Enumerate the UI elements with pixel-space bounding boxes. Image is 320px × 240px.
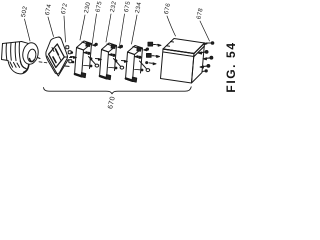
leader line 672 [64,16,66,42]
leader line 678 [200,21,210,41]
leader line 234 [132,15,138,44]
screws left of box 676 [146,42,161,64]
standoffs 672 [65,46,74,67]
leader line 676 [167,16,176,36]
leader line 232 [106,14,111,42]
svg-text:FIG. 54: FIG. 54 [224,41,238,92]
arrow marks at slab 234 [122,56,141,63]
lens housing 502 [2,42,41,74]
arrow marks at slab 232 [96,54,115,61]
screws right of box 676 [198,51,213,73]
screw 678 [204,42,214,45]
frame plate 674 [46,37,68,76]
spacer after slab 234 [135,48,150,72]
leader line 675 [92,14,97,45]
slab 234 [126,46,143,83]
spacer 675 [84,43,99,67]
arrow marks at slab 230 [71,52,90,59]
leader line 230 [80,15,85,40]
slab 232 [100,43,117,80]
leader line 675 second [120,14,125,46]
box 676 [161,39,205,84]
spacer 675 second [109,45,124,69]
slab 230 [75,41,92,78]
brace 670 [44,87,192,94]
axis dashes [39,62,47,63]
leader line 502 [25,19,31,41]
leader line 674 [48,17,54,37]
